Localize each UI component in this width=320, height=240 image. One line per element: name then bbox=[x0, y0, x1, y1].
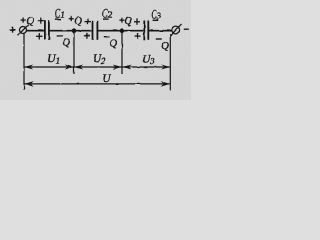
svg-text:U: U bbox=[102, 73, 111, 85]
wire C1 to C2 bbox=[50, 30, 93, 32]
capacitor C3 plates bbox=[144, 21, 148, 40]
plus sign of left terminal bbox=[10, 27, 16, 33]
wire left terminal to C1 bbox=[27, 30, 44, 32]
svg-text:Q: Q bbox=[124, 16, 132, 27]
minus under C2 bbox=[103, 18, 109, 19]
svg-text:Q: Q bbox=[62, 37, 70, 48]
svg-text:3: 3 bbox=[149, 56, 155, 66]
U1 span bbox=[25, 66, 74, 68]
plus upper C3 bbox=[134, 21, 140, 23]
dimension tick left bbox=[23, 34, 25, 90]
wire C2 to C3 bbox=[98, 30, 144, 32]
minus of -Q C1 bbox=[57, 35, 63, 36]
plus lower C1 bbox=[36, 35, 42, 37]
terminal left bbox=[18, 24, 29, 35]
capacitor C2 plates bbox=[93, 21, 98, 40]
minus under C3 bbox=[153, 20, 159, 21]
minus of -Q C3 bbox=[156, 38, 162, 39]
svg-text:2: 2 bbox=[108, 10, 113, 20]
plus lower C3 bbox=[135, 35, 141, 37]
paper background bbox=[0, 0, 191, 100]
U3 span bbox=[123, 66, 170, 68]
svg-text:2: 2 bbox=[101, 56, 106, 66]
svg-text:Q: Q bbox=[110, 38, 118, 49]
svg-text:Q: Q bbox=[161, 41, 169, 52]
minus sign of right terminal bbox=[184, 28, 189, 30]
plus of +Q node1 bbox=[21, 19, 26, 21]
dimension row U1 U2 U3 bbox=[24, 65, 170, 70]
svg-text:1: 1 bbox=[60, 10, 65, 20]
capacitor C1 plates bbox=[45, 20, 49, 40]
dimension row U bbox=[24, 81, 170, 87]
terminal right bbox=[170, 24, 182, 36]
plus upper C1 bbox=[38, 20, 44, 22]
minus under C1 bbox=[55, 18, 61, 19]
wire C3 to right terminal bbox=[149, 30, 172, 32]
drawn plus/minus charge signs bbox=[21, 16, 141, 40]
svg-text:Q: Q bbox=[74, 16, 82, 27]
svg-text:1: 1 bbox=[56, 56, 61, 66]
svg-text:3: 3 bbox=[156, 11, 162, 21]
svg-text:Q: Q bbox=[26, 16, 34, 27]
plus of +Q node2 bbox=[69, 17, 74, 19]
node junction 1 bbox=[72, 28, 77, 33]
minus of -Q C2 bbox=[104, 36, 110, 37]
plus of +Q node3 bbox=[119, 19, 124, 21]
dimension tick right bbox=[169, 34, 171, 90]
plus upper C2 bbox=[85, 21, 91, 23]
node junction 2 bbox=[120, 28, 125, 33]
U2 span bbox=[75, 66, 122, 68]
dimension tick junction2 bbox=[121, 33, 123, 74]
plus lower C2 bbox=[84, 35, 90, 37]
dimension tick junction1 bbox=[73, 33, 75, 74]
